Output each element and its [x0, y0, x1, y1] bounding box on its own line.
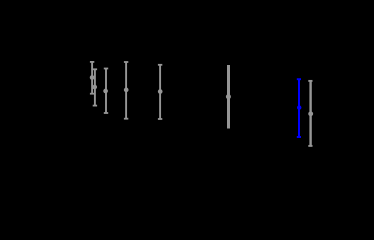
errorbar series 1 point 2 (gray)	[92, 69, 97, 105]
wire	[91, 62, 93, 94]
errorbar point 3 (gray)	[103, 69, 108, 114]
errorbar last point (gray)	[308, 81, 313, 146]
errorbar series 1 point 1 (gray)	[90, 62, 95, 94]
errorbar point 6 (gray, capless thick)	[226, 65, 231, 129]
errorbar point 4 (gray)	[124, 62, 129, 119]
errorbar highlighted point (blue)	[297, 79, 302, 137]
errorbar point 5 (gray)	[158, 65, 163, 119]
